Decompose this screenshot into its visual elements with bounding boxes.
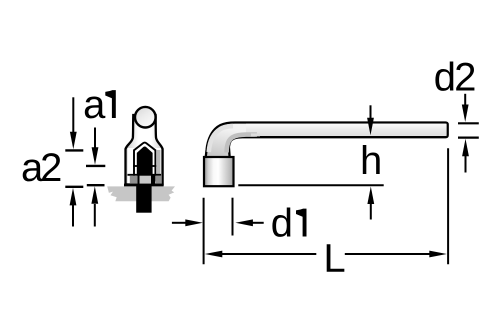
shaft interior shading xyxy=(246,124,447,136)
elbow inner shading xyxy=(209,126,233,152)
d1 label xyxy=(272,208,290,237)
L right extension line xyxy=(447,148,449,264)
a2 upper tick xyxy=(86,165,105,167)
gray strip inside right wall xyxy=(157,150,160,183)
a1 lower tick xyxy=(65,186,83,188)
d2 up arrow xyxy=(465,155,467,173)
a1 upper tick xyxy=(65,149,83,151)
surface material (gray blob) under front-view socket xyxy=(107,186,175,201)
front-view socket body outline xyxy=(126,115,163,184)
d1 right extension line xyxy=(232,198,234,236)
d1 left extension line xyxy=(203,198,205,265)
h up arrow xyxy=(370,203,372,220)
L label xyxy=(327,244,345,272)
a1 down arrow xyxy=(72,97,74,134)
d2 lower tick xyxy=(458,137,479,139)
a2 down arrow xyxy=(94,128,96,150)
inner cavity outline xyxy=(134,143,155,182)
bolt shaft below surface xyxy=(136,183,151,213)
ring head circle xyxy=(135,107,156,128)
d1 right arrow xyxy=(249,222,264,224)
socket bottom edge xyxy=(124,184,164,187)
L dim line left segment xyxy=(219,253,316,255)
a1 up arrow xyxy=(72,204,74,227)
nut top line xyxy=(128,174,162,176)
h down arrow (to underside of shaft) xyxy=(370,105,372,120)
nut facets xyxy=(130,176,138,184)
a1 label xyxy=(85,96,106,118)
bolt (solid black, pointed top) xyxy=(137,147,153,184)
h label xyxy=(363,145,380,174)
d1 left arrow xyxy=(172,222,187,224)
d2 label xyxy=(435,62,453,91)
d2 upper tick xyxy=(458,122,479,124)
a2 lower tick xyxy=(87,184,105,186)
a2 up arrow xyxy=(94,204,96,227)
L dim line right segment xyxy=(345,253,432,255)
bent handle (elbow + shaft) xyxy=(206,123,448,159)
d2 down arrow xyxy=(464,94,466,107)
hex step lines xyxy=(133,165,137,167)
a2 label xyxy=(23,159,44,181)
white interior of socket walls xyxy=(128,148,161,183)
side-view socket (cylinder) xyxy=(204,157,234,186)
h reference line xyxy=(238,184,383,186)
